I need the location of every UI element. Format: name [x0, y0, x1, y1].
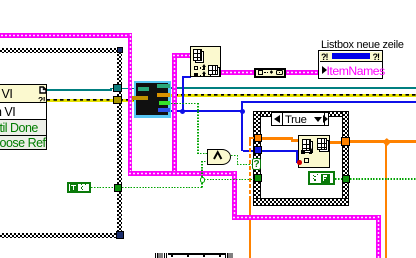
case icon glyph filled-square arrow	[301, 150, 305, 154]
bottom clipped node teeth left	[155, 253, 168, 258]
bottom clipped node single teeth	[171, 253, 173, 257]
bottom clipped node teeth right	[225, 253, 234, 258]
while loop right border	[117, 48, 122, 238]
case selector label	[271, 112, 329, 126]
boolean wire gate output	[231, 155, 238, 157]
case structure top border	[253, 111, 349, 118]
tunnel teal	[113, 84, 122, 92]
AND gate glyph	[211, 150, 224, 161]
invoke node box	[0, 84, 47, 150]
blue wire up to build-array icon	[182, 76, 184, 111]
tunnel orange case left	[254, 134, 262, 142]
tunnel green case right	[342, 175, 350, 183]
case icon grid TR shadow	[319, 140, 329, 152]
property node arrow	[322, 66, 327, 74]
blue junction dot 1	[180, 109, 185, 114]
invoke node row2	[0, 106, 15, 119]
tunnel olive	[113, 96, 122, 104]
property node ?! left	[321, 52, 328, 62]
terminal blue right	[158, 108, 170, 112]
orange wire inside case left	[262, 137, 293, 140]
blue wire down branch	[241, 111, 243, 151]
boolean constant F	[308, 171, 335, 185]
invoke node row4	[0, 136, 46, 150]
build array glyph filled-square arrow	[194, 73, 198, 77]
string node	[254, 68, 286, 78]
build array grid glyph BR shadow	[210, 67, 220, 77]
subVI black node halo	[134, 81, 171, 118]
build array icon	[190, 46, 221, 77]
blue wire main horizontal	[168, 110, 243, 112]
cluster wire long horizontal H2	[232, 215, 380, 220]
terminal teal left	[138, 87, 149, 92]
case structure right border	[342, 111, 350, 206]
subVI black node	[136, 83, 168, 115]
error wire right	[168, 94, 416, 97]
coercion dot red	[297, 160, 302, 165]
invoke node row3	[0, 120, 46, 135]
cluster wire corner down	[232, 171, 237, 218]
orange wire case to junction	[349, 140, 416, 143]
orange wire vertical solid top	[249, 137, 252, 142]
terminal green right	[159, 101, 171, 105]
build array grid glyph BR	[208, 65, 218, 75]
tunnel orange case right	[341, 137, 350, 146]
cluster wire C string node to property node	[286, 70, 318, 75]
build array grid glyph TL	[193, 49, 202, 61]
tunnel green loop	[114, 184, 123, 192]
tunnel blue case left	[254, 146, 263, 154]
orange wire stub to tunnel	[249, 137, 254, 140]
boolean wire F to tunnel	[335, 178, 342, 180]
orange junction dot	[382, 137, 390, 145]
while loop bottom border	[0, 233, 117, 239]
case icon grid TL	[302, 139, 311, 151]
blue wire up-right branch	[241, 101, 243, 111]
cluster wire A top horizontal	[0, 33, 132, 38]
orange wire vertical solid bottom	[249, 196, 252, 258]
boolean wire down from ring	[201, 183, 203, 188]
boolean wire gate lower input	[201, 161, 208, 163]
boolean wire case right out	[350, 178, 416, 180]
AND gate	[207, 149, 231, 165]
boolean wire T const to tunnel	[91, 187, 114, 189]
boolean wire ring to case green tunnel	[204, 179, 254, 181]
invoke node title text VI	[2, 88, 13, 101]
property node blue bar	[332, 53, 370, 59]
case subVI icon	[298, 135, 330, 168]
case selector ? tunnel	[252, 158, 261, 171]
cluster wire B horizontal to icon	[172, 53, 190, 58]
property node title row	[320, 52, 382, 63]
case structure bottom border	[253, 198, 349, 206]
case icon open square	[304, 158, 309, 163]
cluster wire A vertical	[128, 33, 133, 175]
property node ItemNames	[327, 64, 385, 78]
property node ?! right	[373, 52, 380, 62]
orange wire vertical dashed	[249, 142, 252, 196]
terminal orange right	[157, 93, 170, 97]
boolean wire ring to loop tunnel	[122, 187, 202, 189]
property node	[318, 50, 383, 79]
while loop top border	[0, 48, 117, 53]
build array glyph open-square arrow	[194, 66, 198, 70]
terminal teal right	[157, 84, 171, 89]
build array grid glyph TL shadow	[195, 51, 204, 63]
tunnel navy top-right	[117, 47, 124, 54]
label Listbox neue zeile	[321, 39, 404, 51]
terminal olive left	[132, 96, 148, 100]
orange wire inside case right	[330, 141, 341, 144]
boolean wire from subVI	[168, 103, 198, 105]
bottom clipped node top line	[155, 253, 234, 255]
tunnel green case left	[254, 174, 263, 182]
error wire left	[47, 99, 136, 102]
blue wire inside case	[262, 150, 297, 152]
case icon grid TL shadow	[304, 141, 313, 153]
case structure left border	[253, 111, 261, 206]
refnum wire teal right	[168, 87, 416, 89]
cluster wire C icon to string node	[221, 70, 254, 75]
boolean constant T	[67, 182, 91, 194]
cluster wire right vertical to bottom	[376, 215, 381, 258]
blue junction dot 2	[240, 109, 245, 114]
cluster wire B vertical	[172, 53, 177, 174]
boolean junction ring	[200, 177, 205, 182]
orange wire vertical right	[385, 141, 387, 258]
cluster wire long horizontal H1	[128, 171, 237, 176]
invoke node title row	[0, 85, 46, 103]
invoke node ?! glyph	[38, 95, 45, 105]
tunnel navy bottom-right	[116, 231, 124, 240]
refnum wire teal left	[47, 89, 111, 91]
case icon grid TR	[317, 138, 327, 150]
invoke node page icon	[39, 86, 47, 94]
